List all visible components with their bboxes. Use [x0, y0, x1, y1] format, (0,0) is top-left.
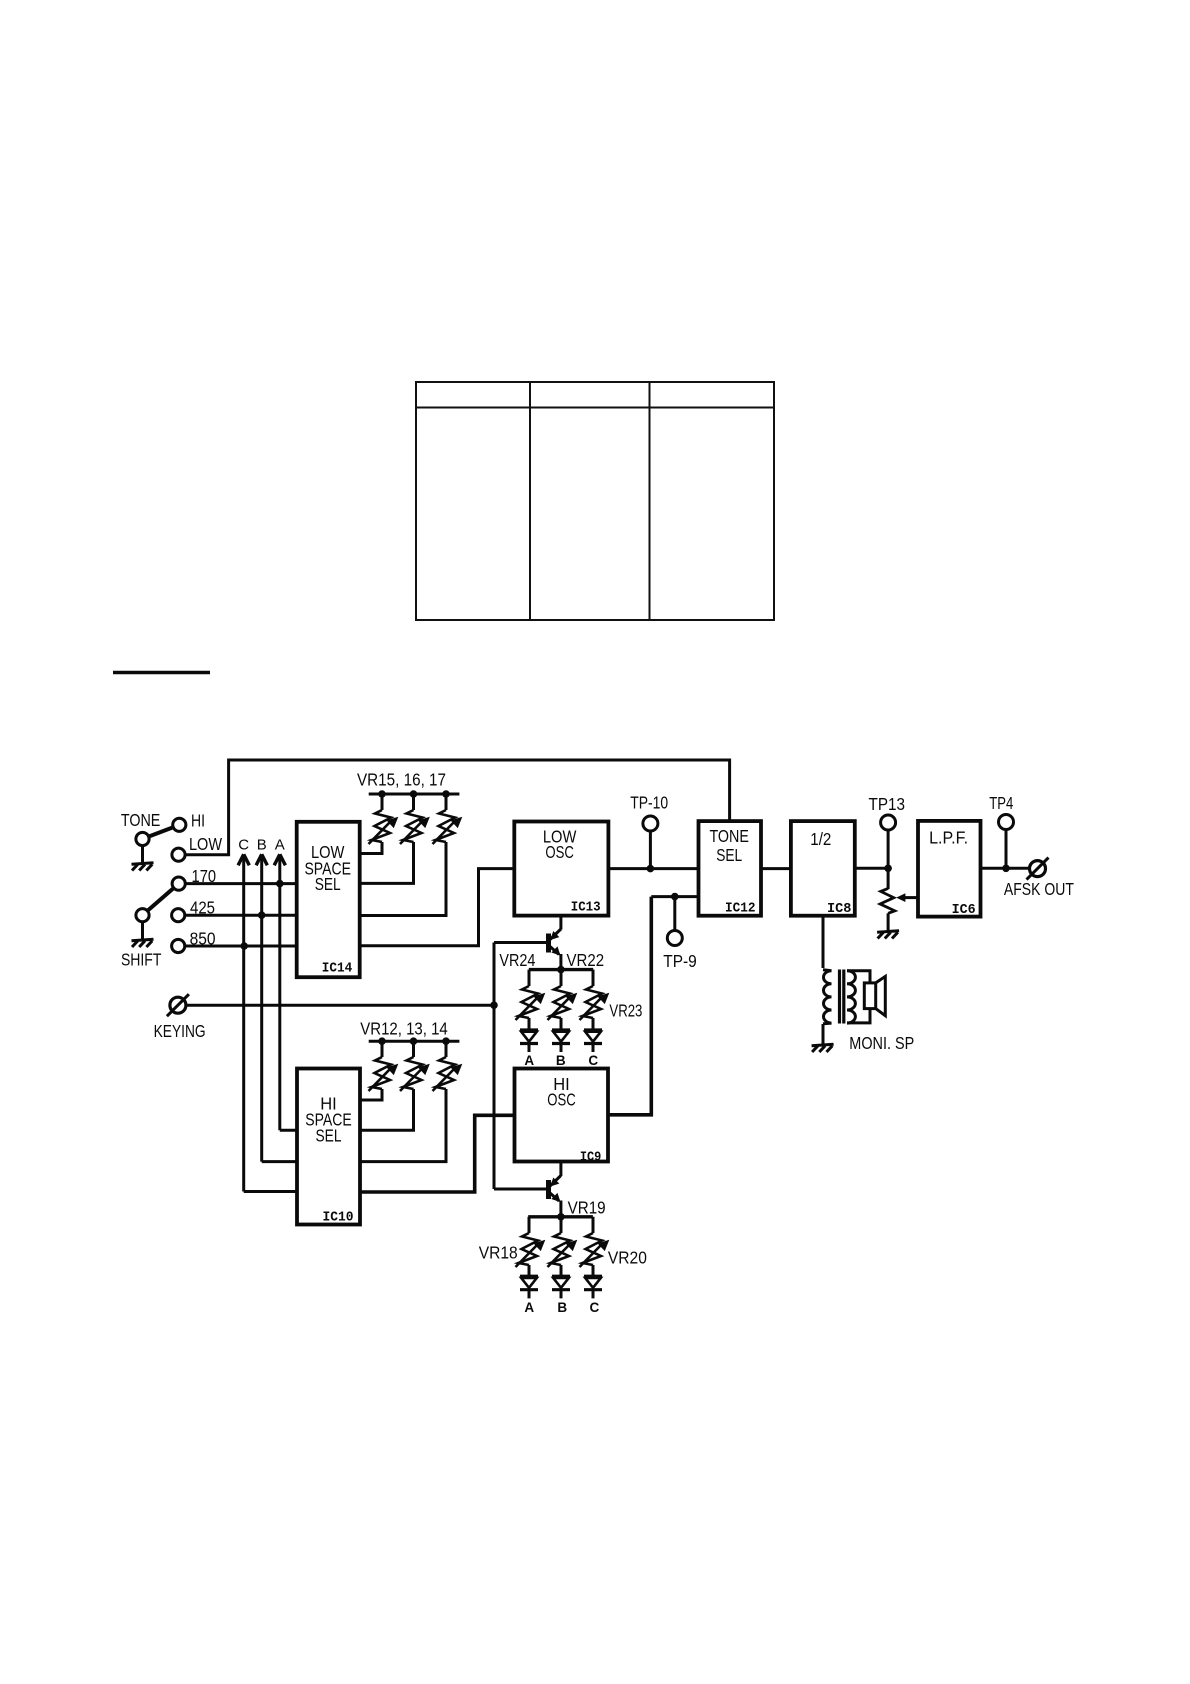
svg-text:IC6: IC6	[952, 902, 976, 918]
testpoint TP13	[881, 815, 896, 830]
svg-text:SEL: SEL	[315, 874, 341, 894]
rule line	[113, 671, 210, 675]
node TP4 junction	[1002, 865, 1010, 873]
wire 425 line	[185, 914, 297, 917]
node TP-10 junction	[647, 865, 655, 873]
svg-text:SEL: SEL	[316, 1126, 342, 1146]
switch SHIFT 850 contact	[172, 939, 185, 952]
svg-text:B: B	[557, 1300, 567, 1315]
svg-text:VR18: VR18	[479, 1243, 518, 1263]
wire 1/2 output to TP13 node	[855, 867, 888, 870]
svg-text:170: 170	[192, 866, 217, 886]
switch SHIFT 425 contact	[172, 909, 185, 922]
svg-text:VR24: VR24	[499, 950, 535, 970]
wire TONE SEL lower input	[651, 895, 698, 898]
ground transformer	[812, 1044, 834, 1052]
svg-text:1/2: 1/2	[810, 829, 831, 849]
wire L.P.F. output to AFSK OUT	[981, 867, 1030, 870]
resistor VR17	[433, 810, 462, 844]
node TP-9 junction	[671, 893, 679, 901]
transformer T1	[823, 970, 870, 1024]
svg-text:AFSK OUT: AFSK OUT	[1004, 879, 1074, 899]
svg-text:850: 850	[190, 928, 216, 948]
wire VR19 column	[560, 1217, 563, 1299]
wire 850 line	[185, 945, 297, 948]
switch SHIFT lever	[148, 888, 175, 911]
transistor Q upper (PNP after IC13)	[494, 915, 561, 971]
resistor VR20	[580, 1233, 609, 1267]
svg-text:L.P.F.: L.P.F.	[929, 828, 968, 848]
svg-text:A: A	[524, 1300, 534, 1315]
wire line A	[278, 855, 281, 1131]
svg-text:TP-9: TP-9	[663, 951, 697, 971]
node KEYING junction	[490, 1001, 498, 1009]
wire VR22 column	[560, 970, 563, 1052]
resistor VR24	[516, 986, 545, 1020]
wire VR12 leads	[360, 1041, 382, 1100]
resistor VR18	[516, 1233, 545, 1267]
diode C upper	[584, 1030, 602, 1044]
wire line C	[242, 855, 245, 1192]
resistor VR13	[400, 1057, 429, 1091]
node VR17 bus dot	[442, 790, 450, 798]
node 850-C junction	[240, 942, 248, 950]
transistor Q lower (after IC9)	[494, 1162, 561, 1218]
diode B lower	[552, 1276, 570, 1290]
svg-text:C: C	[588, 1053, 598, 1068]
wire KEYING line	[186, 1004, 494, 1007]
svg-text:SHIFT: SHIFT	[121, 950, 162, 970]
wire IC8 to transformer	[822, 916, 825, 968]
wire HI SPACE SEL output to HI OSC	[360, 1115, 515, 1192]
switch SHIFT 170 contact	[172, 877, 185, 890]
wire TONE SEL to 1/2	[761, 867, 791, 870]
box TONE SEL IC12	[699, 821, 762, 916]
wire B into HI SPACE SEL	[262, 1160, 297, 1163]
switch TONE common contact	[136, 832, 149, 845]
svg-text:A: A	[275, 837, 285, 854]
wire lower VR bus	[528, 1215, 593, 1218]
ground pot	[877, 931, 899, 939]
node TP13 junction	[884, 865, 892, 873]
wire VR12-14 top bus	[369, 1040, 460, 1043]
wire LOW OSC to TONE SEL	[608, 867, 698, 870]
svg-text:IC13: IC13	[571, 900, 601, 916]
box LOW SPACE SEL IC14	[297, 822, 360, 977]
wire A into HI SPACE SEL	[280, 1129, 297, 1132]
switch TONE LOW contact	[172, 848, 185, 861]
svg-text:VR23: VR23	[609, 1001, 642, 1021]
wire VR23 column	[592, 970, 595, 1052]
switch TONE HI contact	[173, 818, 186, 831]
wire upper VR bus	[529, 968, 593, 971]
wire VR18 column	[528, 1217, 531, 1299]
wire pot top lead	[887, 868, 890, 889]
node VR14 bus dot	[442, 1037, 450, 1045]
wire TP13 stem	[887, 830, 890, 868]
wire VR17 leads	[360, 794, 446, 916]
wire pot to ground	[887, 913, 890, 931]
wire VR14 leads	[360, 1041, 446, 1161]
svg-text:C: C	[590, 1300, 600, 1315]
svg-text:OSC: OSC	[547, 1090, 576, 1110]
svg-text:TP13: TP13	[869, 794, 906, 814]
svg-text:425: 425	[190, 898, 215, 918]
box HI SPACE SEL IC10	[297, 1069, 360, 1225]
svg-text:IC10: IC10	[323, 1210, 354, 1226]
wire 170 line	[185, 882, 297, 885]
svg-text:VR22: VR22	[567, 950, 605, 970]
arrow line B	[256, 854, 267, 865]
box HI OSC IC9	[515, 1069, 609, 1162]
wire TP-10 stem	[649, 831, 652, 869]
resistor VR23	[580, 986, 609, 1020]
resistor VR12	[369, 1057, 398, 1091]
wire TP-9 stem	[673, 897, 676, 931]
svg-text:IC9: IC9	[580, 1149, 602, 1165]
svg-text:TONE: TONE	[121, 810, 161, 830]
wire VR15 leads	[360, 794, 382, 854]
table	[416, 382, 774, 620]
switch SHIFT common contact	[136, 909, 149, 922]
svg-text:C: C	[238, 837, 249, 854]
node VR13 bus dot	[410, 1037, 418, 1045]
svg-text:MONI. SP: MONI. SP	[849, 1033, 914, 1053]
ground TONE	[132, 863, 154, 871]
svg-text:VR12, 13, 14: VR12, 13, 14	[360, 1019, 448, 1039]
wire HI OSC output riser	[608, 897, 651, 1115]
svg-text:VR15, 16, 17: VR15, 16, 17	[357, 770, 446, 790]
resistor VR15	[369, 810, 398, 844]
resistor VR16	[400, 810, 429, 844]
arrow line C	[238, 854, 249, 865]
svg-text:IC14: IC14	[322, 961, 353, 977]
node lower emitter junction	[557, 1213, 565, 1221]
wire VR24 column	[528, 970, 531, 1052]
connector KEYING	[167, 994, 189, 1016]
svg-text:A: A	[524, 1053, 534, 1068]
diode B upper	[552, 1030, 570, 1044]
box 1/2 IC8	[791, 821, 855, 916]
speaker MONI. SP	[864, 976, 885, 1015]
svg-text:SEL: SEL	[716, 845, 742, 865]
node upper emitter junction	[557, 966, 565, 974]
svg-text:LOW: LOW	[189, 834, 222, 854]
node 170-A junction	[276, 880, 284, 888]
wire VR16 leads	[360, 794, 414, 883]
testpoint TP-10	[643, 816, 658, 831]
svg-text:B: B	[257, 837, 267, 854]
svg-text:VR20: VR20	[608, 1248, 647, 1268]
node 425-B junction	[258, 911, 266, 919]
svg-text:HI: HI	[191, 811, 205, 831]
resistor VR19	[548, 1233, 577, 1267]
wire VR13 leads	[360, 1041, 414, 1130]
diode A upper	[520, 1030, 538, 1044]
wire TONE common to ground	[141, 846, 144, 864]
svg-text:VR19: VR19	[568, 1198, 606, 1218]
connector AFSK OUT	[1027, 858, 1049, 880]
testpoint TP-9	[667, 931, 682, 946]
wire LOW SPACE SEL output to LOW OSC	[360, 869, 515, 946]
svg-text:TONE: TONE	[709, 826, 749, 846]
ground SHIFT	[132, 939, 154, 947]
svg-text:OSC: OSC	[545, 842, 574, 862]
box L.P.F. IC6	[918, 821, 981, 917]
wire TP4 stem	[1005, 830, 1008, 868]
testpoint TP4	[999, 815, 1014, 830]
box LOW OSC IC13	[514, 822, 608, 916]
wire SHIFT common to ground	[141, 922, 144, 940]
svg-text:TP-10: TP-10	[630, 793, 668, 813]
wire VR15-17 top bus	[369, 793, 460, 796]
diode C lower	[584, 1276, 602, 1290]
svg-text:TP4: TP4	[989, 793, 1013, 813]
diode A lower	[520, 1276, 538, 1290]
svg-text:B: B	[556, 1053, 566, 1068]
wire C into HI SPACE SEL	[244, 1190, 297, 1193]
resistor VR14	[433, 1057, 462, 1091]
node VR16 bus dot	[410, 790, 418, 798]
svg-text:IC8: IC8	[827, 901, 852, 917]
wire top bus from LOW contact to TONE SEL	[185, 760, 730, 855]
wire keying riser to transistor bases	[493, 943, 496, 1190]
arrow line A	[274, 854, 285, 865]
wire line B	[260, 855, 263, 1162]
wire transformer to ground	[822, 1024, 825, 1044]
node VR15 bus dot	[378, 790, 386, 798]
resistor VR22	[548, 986, 577, 1020]
potentiometer at TP13	[880, 888, 917, 913]
node VR12 bus dot	[378, 1037, 386, 1045]
wire VR20 column	[592, 1217, 595, 1299]
switch TONE lever	[149, 827, 174, 836]
svg-text:KEYING: KEYING	[154, 1021, 206, 1041]
svg-text:IC12: IC12	[725, 900, 756, 916]
